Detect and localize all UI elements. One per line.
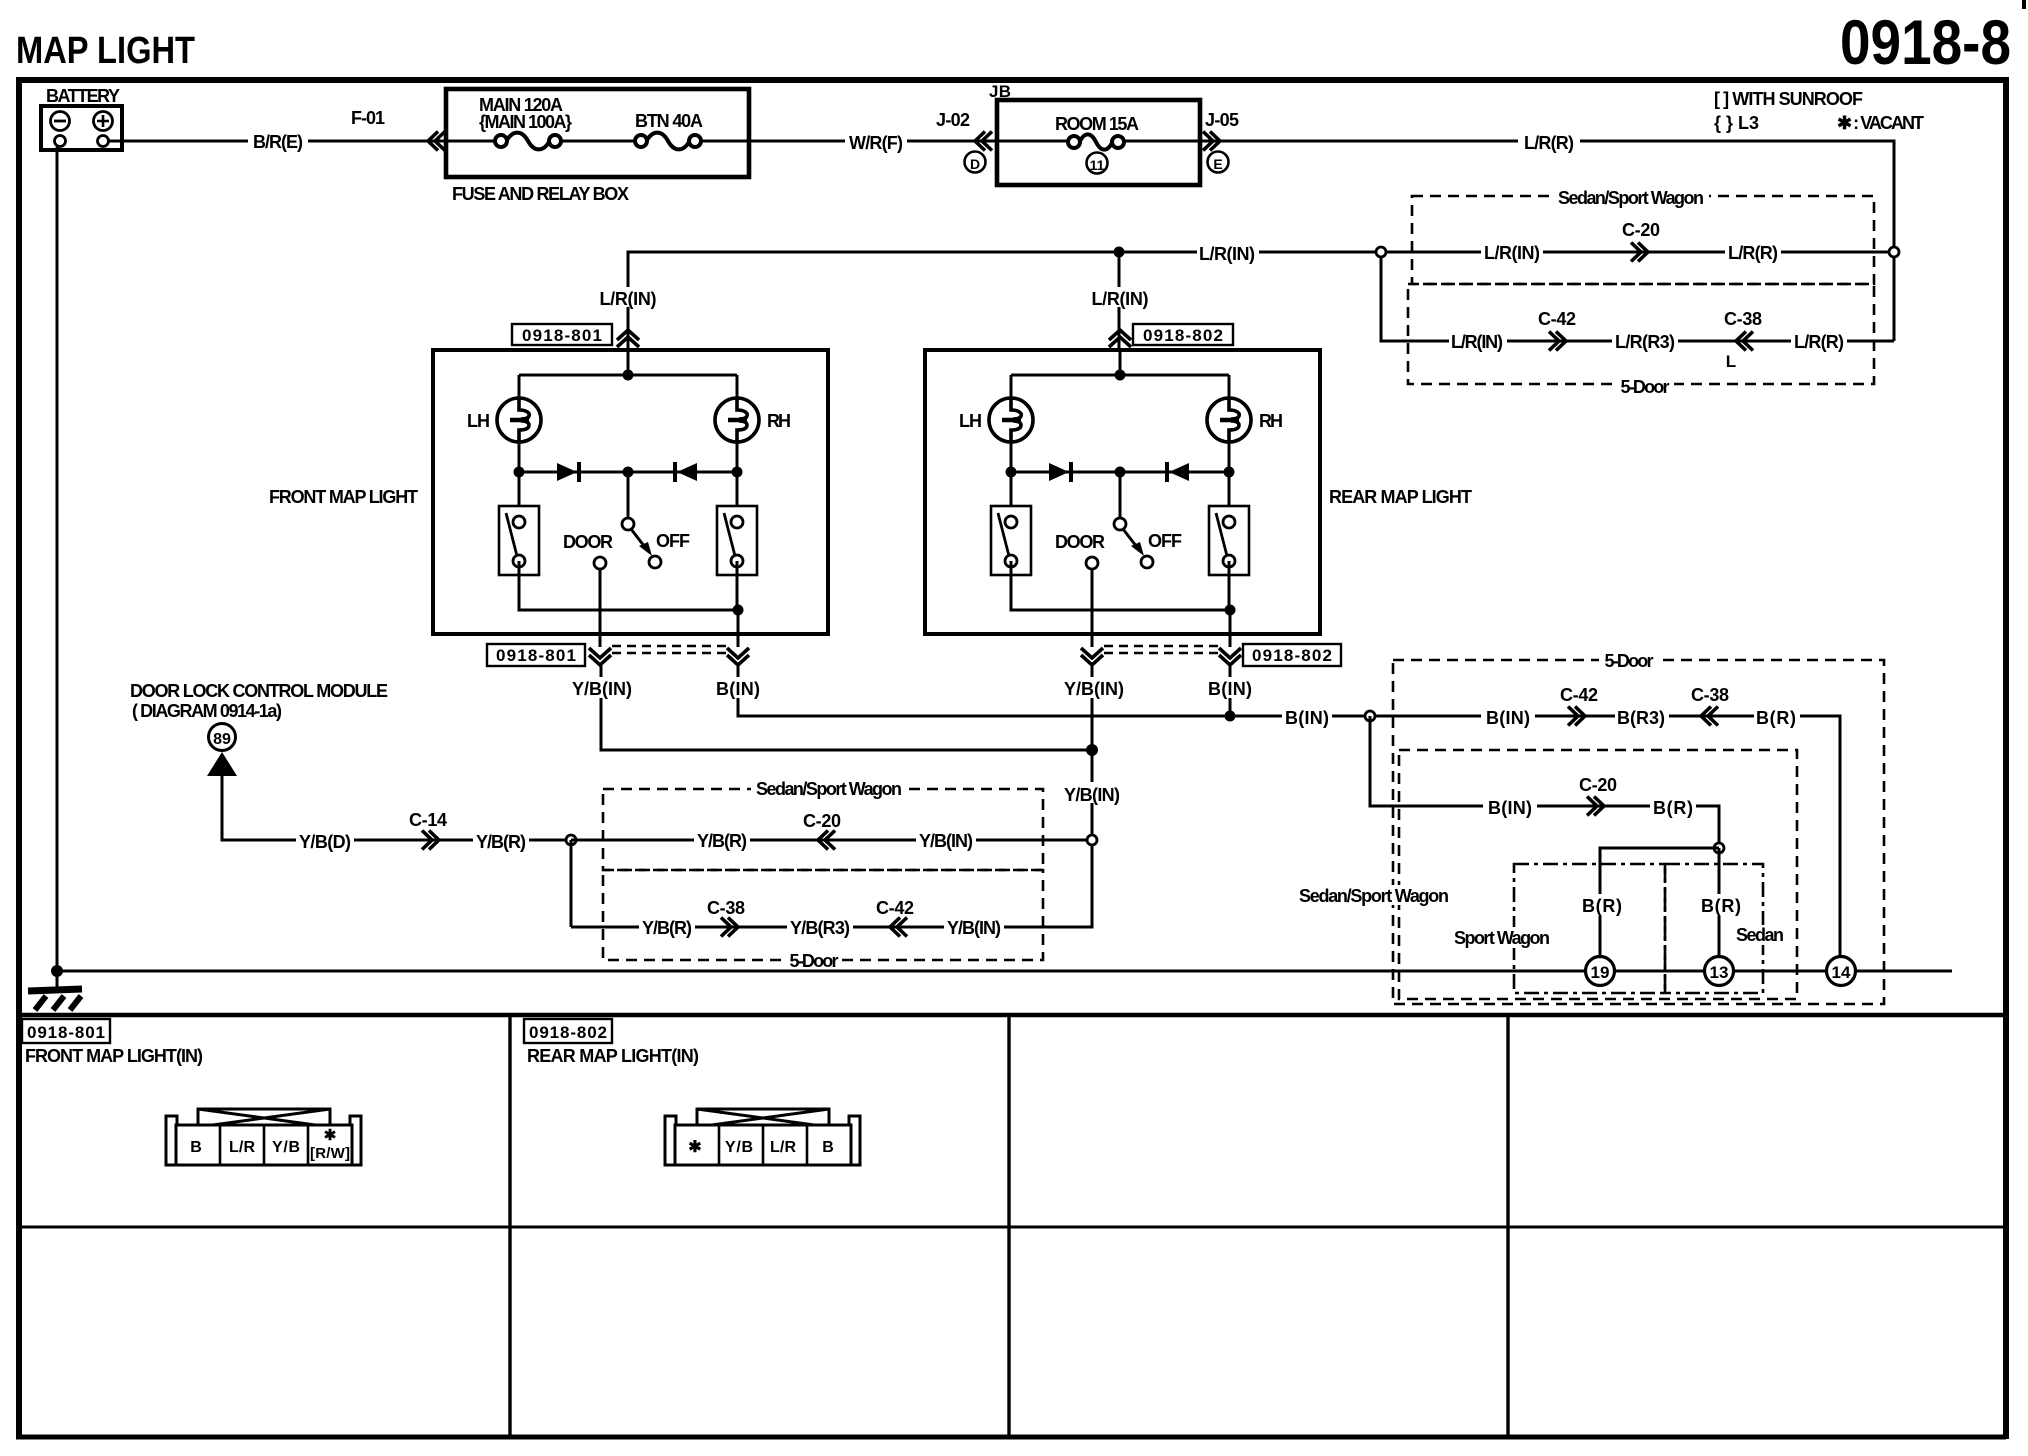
wire B exit rear [1229, 610, 1232, 647]
ground wire bus [57, 970, 1952, 973]
table label 0918-801 [22, 1019, 110, 1043]
svg-text:Sedan: Sedan [1736, 925, 1784, 945]
svg-text:L/R(IN): L/R(IN) [600, 289, 657, 309]
dashed box 5-Door bottom right [1393, 660, 1884, 1004]
svg-text:LH: LH [467, 411, 490, 431]
svg-text:REAR MAP LIGHT(IN): REAR MAP LIGHT(IN) [527, 1046, 699, 1066]
connector C-14 [409, 810, 447, 850]
svg-text:RH: RH [767, 411, 791, 431]
dash-dot box Sport Wagon [1514, 864, 1665, 993]
fuse MAIN 120A (MAIN 100A) [479, 95, 572, 149]
svg-text:Y/B: Y/B [725, 1139, 753, 1156]
svg-text:[ ] WITH SUNROOF: [ ] WITH SUNROOF [1714, 89, 1863, 109]
label Y/B(R3) mid row2 [787, 916, 853, 938]
label B(R) br row2 [1650, 795, 1696, 818]
label Y/B(IN) mid row2 [944, 916, 1004, 938]
diode right front [675, 462, 697, 482]
svg-text:FUSE AND RELAY BOX: FUSE AND RELAY BOX [452, 184, 629, 204]
svg-text:0918-801: 0918-801 [27, 1023, 105, 1042]
svg-text:C-20: C-20 [1622, 220, 1660, 240]
svg-text:B(IN): B(IN) [1285, 708, 1329, 728]
svg-text:C-20: C-20 [803, 811, 841, 831]
svg-text:B(IN): B(IN) [1486, 708, 1530, 728]
svg-text:Y/B(IN): Y/B(IN) [1064, 679, 1124, 699]
wire rear B(IN) down [1229, 663, 1232, 716]
junction Y/B join [1086, 744, 1098, 756]
svg-text:L/R(IN): L/R(IN) [1484, 243, 1540, 263]
junction B join [1225, 711, 1236, 722]
label 5-Door [1616, 377, 1674, 397]
wire middle bus rear [1011, 471, 1229, 474]
wire front Y/B(IN) down and right [601, 663, 1092, 750]
label Y/B(IN) mid row1 [916, 829, 976, 851]
svg-text:✱: ✱ [688, 1139, 701, 1156]
row1: label L/R(IN) [1481, 241, 1543, 263]
connector entry chevron rear [1109, 330, 1131, 347]
wire module Y/B(D) [222, 776, 571, 840]
svg-text:L/R(IN): L/R(IN) [1451, 332, 1503, 352]
row2: label L/R(IN) [1449, 330, 1507, 352]
label 5-Door middle [786, 951, 842, 971]
wire B(R) to sedan ground [1718, 848, 1721, 957]
label Sedan/Sport Wagon bottom right [1296, 885, 1452, 906]
wire mid row1 [571, 839, 1092, 842]
label B(R) above 13 [1698, 894, 1744, 916]
ground point 13 [1705, 957, 1734, 986]
dashed connector link front [612, 645, 727, 647]
junction rear drop [1114, 247, 1125, 258]
wire RH branch front [736, 375, 739, 472]
wire front B(IN) down and right [738, 663, 1370, 716]
wire top-right row2 [1381, 252, 1894, 341]
connector C-42 top right [1538, 309, 1576, 351]
label box 0918-801 top [512, 324, 612, 345]
dash-dot box Sedan [1665, 864, 1763, 993]
svg-text:Y/B(R): Y/B(R) [476, 832, 526, 852]
chassis ground symbol [28, 971, 82, 1010]
connector J-05 with pin E [1203, 110, 1239, 173]
svg-text:B(R): B(R) [1701, 896, 1741, 916]
svg-text:0918-802: 0918-802 [529, 1023, 607, 1042]
wire RH branch rear [1228, 375, 1231, 472]
diode right rear [1167, 462, 1189, 482]
label Y/B(IN) on rear drop [1061, 782, 1123, 805]
label Y/B(R) [473, 829, 529, 852]
label B(R3) br row1 [1615, 705, 1669, 728]
ground point 19 [1586, 957, 1615, 986]
node right end row1 [1889, 247, 1899, 257]
label Y/B(D) [296, 829, 354, 852]
svg-text:B: B [190, 1139, 202, 1156]
connector C-20 middle [803, 811, 841, 850]
svg-text:DOOR: DOOR [1055, 532, 1105, 552]
svg-text:E: E [1213, 156, 1222, 172]
svg-text:Y/B(IN): Y/B(IN) [919, 831, 973, 851]
switch RH rear [1228, 472, 1231, 510]
svg-text:LH: LH [959, 411, 982, 431]
svg-text:D: D [970, 156, 980, 172]
svg-text:0918-802: 0918-802 [1252, 646, 1332, 665]
svg-text:REAR MAP LIGHT: REAR MAP LIGHT [1329, 487, 1472, 507]
wire bottom bus rear [1011, 561, 1230, 610]
row1: label L/R(R) [1725, 241, 1781, 263]
label B(IN) exit front [715, 677, 763, 698]
label B(IN) on bus [1282, 705, 1332, 728]
connector C-38 top right [1724, 309, 1762, 371]
label Sport Wagon [1452, 927, 1552, 948]
row2: label L/R(R) [1791, 330, 1847, 352]
connector entry chevron front [617, 330, 639, 347]
svg-text:ROOM 15A: ROOM 15A [1055, 114, 1139, 134]
label B(IN) exit rear [1207, 677, 1255, 698]
svg-text:OFF: OFF [1148, 531, 1182, 551]
wire rear drop L/R(IN) [1118, 252, 1121, 350]
svg-text:{ } L3: { } L3 [1714, 113, 1759, 133]
fuse BTN 40A [635, 111, 703, 149]
front map light unit box [433, 350, 828, 634]
svg-text:RH: RH [1259, 411, 1283, 431]
label Y/B(R) mid row1 [694, 829, 750, 851]
svg-text:C-20: C-20 [1579, 775, 1617, 795]
door/off selector rear [1055, 472, 1182, 569]
label box 0918-802 bottom [1243, 644, 1341, 666]
svg-text:L/R(IN): L/R(IN) [1092, 289, 1149, 309]
bulb LH front [497, 398, 541, 442]
label B(R) br row1 [1754, 705, 1800, 728]
svg-text:5-Door: 5-Door [1605, 651, 1654, 671]
connector C-42 middle [876, 898, 914, 937]
connector C-38 bottom right [1691, 685, 1729, 726]
wire door contact exit rear [1091, 569, 1094, 647]
svg-text:( DIAGRAM 0914-1a): ( DIAGRAM 0914-1a) [132, 701, 282, 721]
dashed box Sedan/Sport Wagon top right [1412, 196, 1874, 284]
switch LH rear [1010, 472, 1013, 510]
svg-text:MAP LIGHT: MAP LIGHT [16, 30, 195, 72]
label L/R(IN) on main line [1197, 241, 1259, 264]
ground point 14 [1827, 957, 1856, 986]
svg-text:Sport Wagon: Sport Wagon [1454, 928, 1550, 948]
label L/R(R) [1518, 130, 1580, 153]
wire internal top bus rear [1011, 374, 1229, 377]
svg-text:C-38: C-38 [707, 898, 745, 918]
svg-text:L/R(R): L/R(R) [1524, 133, 1574, 153]
svg-text:B(R): B(R) [1653, 798, 1693, 818]
wire internal top bus front [519, 374, 737, 377]
connector C-42 bottom right [1560, 685, 1598, 726]
dashed box 5-Door top right [1408, 284, 1874, 384]
bulb RH front [715, 398, 759, 442]
svg-text:0918-802: 0918-802 [1143, 326, 1223, 345]
svg-text:DOOR: DOOR [563, 532, 613, 552]
switch RH front [736, 472, 739, 510]
wire fuse box to JB W/R(F) [750, 140, 995, 143]
wire LH branch front [518, 375, 521, 472]
label Sedan/Sport Wagon [1554, 188, 1709, 208]
wire B(IN) row C-42/C-38 [1375, 716, 1840, 957]
node Y/B distribution [566, 835, 576, 845]
svg-text:C-14: C-14 [409, 810, 447, 830]
bulb RH rear [1207, 398, 1251, 442]
svg-text:W/R(F): W/R(F) [849, 133, 903, 153]
svg-text:Y/B(R3): Y/B(R3) [790, 918, 850, 938]
rear map light unit box [925, 350, 1320, 634]
connector J-02 with pin D [936, 110, 992, 173]
svg-text:BATTERY: BATTERY [46, 86, 120, 106]
door/off selector front [563, 472, 690, 569]
wire door contact exit front [599, 569, 602, 647]
table label 0918-802 [524, 1019, 612, 1043]
svg-text:B(IN): B(IN) [1488, 798, 1532, 818]
dashed box Sedan/Sport Wagon middle [603, 789, 1043, 870]
connector C-20 top right [1622, 220, 1660, 262]
label B/R(E) [248, 130, 308, 152]
svg-text:0918-8: 0918-8 [1840, 8, 2011, 78]
svg-text:L/R(IN): L/R(IN) [1199, 244, 1255, 264]
connector exit chevrons front [589, 648, 611, 665]
wire JB to right corner L/R(R) [1200, 141, 1894, 341]
connector C-20 bottom right [1579, 775, 1617, 816]
connector exit chevrons rear [1081, 648, 1103, 665]
svg-text:L/R(R): L/R(R) [1794, 332, 1844, 352]
svg-text:19: 19 [1591, 963, 1610, 982]
svg-text:Y/B: Y/B [272, 1139, 300, 1156]
wire LH branch rear [1010, 375, 1013, 472]
dashed box Sedan/Sport Wagon bottom right [1399, 750, 1797, 999]
label Y/B(IN) exit front [571, 677, 635, 698]
wire mid row2 [571, 845, 1092, 927]
svg-text:Sedan/Sport Wagon: Sedan/Sport Wagon [756, 779, 902, 799]
label L/R(IN) drop rear [1089, 287, 1152, 309]
svg-text:B/R(E): B/R(E) [253, 132, 303, 152]
svg-text:11: 11 [1090, 157, 1105, 173]
svg-text:Y/B(IN): Y/B(IN) [572, 679, 632, 699]
label B(IN) br row2 [1483, 795, 1537, 818]
svg-text:Y/B(IN): Y/B(IN) [1064, 785, 1120, 805]
table grid [16, 1015, 2006, 1437]
connector C-38 middle [707, 898, 745, 937]
door lock control module [130, 681, 388, 776]
diode left rear [1049, 462, 1071, 482]
label box 0918-802 top [1133, 324, 1233, 345]
svg-text:DOOR LOCK CONTROL MODULE: DOOR LOCK CONTROL MODULE [130, 681, 388, 701]
connector F-01 [351, 108, 445, 151]
wire battery positive to fuse box B/R(E) [108, 140, 444, 143]
switch LH front [518, 472, 521, 510]
svg-text:C-38: C-38 [1724, 309, 1762, 329]
label Y/B(IN) exit rear [1063, 677, 1127, 698]
svg-text:Y/B(R): Y/B(R) [642, 918, 692, 938]
svg-text:5-Door: 5-Door [1621, 377, 1670, 397]
bulb LH rear [989, 398, 1033, 442]
svg-text:J-05: J-05 [1205, 110, 1239, 130]
wire battery negative down to ground [56, 147, 59, 971]
label box 0918-801 bottom [487, 644, 585, 666]
diode left front [557, 462, 579, 482]
node mid row1 right [1087, 835, 1097, 845]
svg-text:B(R3): B(R3) [1617, 708, 1665, 728]
svg-text:13: 13 [1710, 963, 1729, 982]
svg-text:{MAIN 100A}: {MAIN 100A} [479, 112, 572, 132]
svg-text:0918-801: 0918-801 [496, 646, 576, 665]
svg-text:J-02: J-02 [936, 110, 970, 130]
svg-text:Y/B(R): Y/B(R) [697, 831, 747, 851]
svg-text:B(R): B(R) [1582, 896, 1622, 916]
wire B(IN) down to C-20 row [1370, 716, 1719, 843]
svg-text:C-42: C-42 [876, 898, 914, 918]
svg-text:L/R(R): L/R(R) [1728, 243, 1778, 263]
svg-text:B(IN): B(IN) [716, 679, 760, 699]
label 5-Door bottom right [1599, 651, 1659, 671]
wire main L/R(IN) line [628, 252, 1894, 350]
junction box JB [989, 82, 1200, 185]
svg-text:✱: ✱ [324, 1127, 337, 1144]
dashed connector link rear [1104, 645, 1219, 647]
wire B exit front [737, 610, 740, 647]
svg-text:F-01: F-01 [351, 108, 385, 128]
label W/R(F) [845, 130, 907, 153]
label Sedan [1734, 925, 1786, 945]
svg-text:Y/B(IN): Y/B(IN) [947, 918, 1001, 938]
svg-text:✱ : VACANT: ✱ : VACANT [1837, 113, 1924, 133]
junction battery ground [51, 965, 63, 977]
svg-text:L/R(R3): L/R(R3) [1615, 332, 1675, 352]
svg-text:L/R: L/R [229, 1139, 255, 1156]
dashed box 5-Door middle [603, 870, 1043, 960]
label B(R) above 19 [1579, 894, 1625, 916]
svg-text:OFF: OFF [656, 531, 690, 551]
node B(R) split [1714, 843, 1724, 853]
wire mid left vertical [570, 840, 573, 927]
wire bottom bus front [519, 561, 738, 610]
label Y/B(R) mid row2 [639, 916, 695, 938]
node B distribution [1365, 711, 1375, 721]
svg-text:L/R: L/R [770, 1139, 796, 1156]
svg-text:14: 14 [1832, 963, 1851, 982]
svg-text:B(R): B(R) [1756, 708, 1796, 728]
svg-text:Sedan/Sport Wagon: Sedan/Sport Wagon [1299, 886, 1449, 906]
fuse ROOM 15A with pin 11 [1055, 114, 1139, 174]
svg-text:FRONT MAP LIGHT: FRONT MAP LIGHT [269, 487, 418, 507]
connector pinout rear map light [665, 1109, 860, 1165]
label L/R(IN) drop front [597, 287, 660, 309]
label B(IN) br row1 [1481, 705, 1535, 728]
svg-text:L: L [1726, 352, 1736, 371]
svg-text:89: 89 [213, 731, 231, 748]
wire middle bus front [519, 471, 737, 474]
svg-text:Sedan/Sport Wagon: Sedan/Sport Wagon [1558, 188, 1704, 208]
svg-text:0918-801: 0918-801 [522, 326, 602, 345]
svg-text:B: B [822, 1139, 834, 1156]
svg-text:5-Door: 5-Door [790, 951, 839, 971]
svg-text:C-38: C-38 [1691, 685, 1729, 705]
row2: label L/R(R3) [1612, 330, 1678, 352]
label Sedan/Sport Wagon middle [751, 779, 907, 799]
svg-text:Y/B(D): Y/B(D) [299, 832, 351, 852]
wire rear Y/B(IN) down [1091, 663, 1094, 840]
svg-text:B(IN): B(IN) [1208, 679, 1252, 699]
svg-text:[R/W]: [R/W] [310, 1145, 350, 1162]
node left of C-20 row [1376, 247, 1386, 257]
connector pinout front map light [166, 1109, 361, 1165]
svg-text:C-42: C-42 [1560, 685, 1598, 705]
svg-text:BTN 40A: BTN 40A [635, 111, 703, 131]
fuse and relay box [446, 89, 749, 204]
battery [41, 86, 122, 150]
wire B(R) to sport wagon ground [1600, 848, 1719, 957]
svg-text:C-42: C-42 [1538, 309, 1576, 329]
svg-text:FRONT MAP LIGHT(IN): FRONT MAP LIGHT(IN) [25, 1046, 203, 1066]
